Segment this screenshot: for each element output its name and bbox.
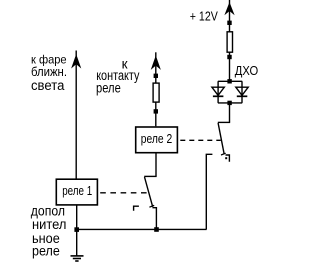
wire: stem to ground	[76, 230, 78, 256]
switch S2 connected throw (left, to bus)	[206, 154, 212, 229]
node: terminal above fuse FU2	[154, 74, 158, 78]
switch S2 unconnected throw seat (right)	[226, 155, 230, 162]
wire: left diode vertical lead	[217, 81, 219, 103]
wire: jog of switch S1 top terminal	[144, 175, 156, 177]
node: junction of bus with switch S1 output	[154, 227, 159, 232]
svg-text:света: света	[31, 78, 65, 93]
arrow: to low-beam headlight (points up)	[72, 55, 80, 67]
dashed mechanical link: relay K1 to contact S1	[100, 192, 148, 194]
node: junction top rail / supply	[227, 79, 231, 83]
svg-text:реле 2: реле 2	[141, 132, 172, 146]
wire: right diode vertical lead	[241, 81, 243, 103]
diode VD2 (right, ДХО)	[236, 87, 248, 96]
ground symbol	[71, 256, 84, 261]
switch S1 connected throw seat	[152, 208, 156, 230]
arrow: +12V feed (points up)	[225, 3, 233, 14]
diode VD1 (left, ДХО)	[212, 87, 224, 96]
wire: bottom bus from ground node to right switch terminal	[77, 228, 207, 230]
relay K2 box "реле 2"	[136, 127, 178, 153]
label: дополнительное реле	[31, 203, 67, 258]
svg-text:реле: реле	[32, 244, 60, 259]
switch S1 unconnected throw (Г mark)	[134, 206, 139, 211]
label: + 12V supply	[190, 10, 219, 24]
svg-text:нител: нител	[32, 217, 66, 232]
wire: middle branch, к контакту реле	[155, 52, 157, 126]
label: к фаре ближн. света	[31, 52, 67, 93]
node: junction of K1 pin, ground and bottom bus	[74, 227, 79, 232]
node: terminal above fuse FU1	[227, 21, 231, 25]
svg-text:ДХО: ДХО	[235, 64, 259, 78]
label: к контакту реле	[96, 56, 140, 95]
node: junction bottom rail / switch S2	[227, 101, 231, 105]
fuse FU1	[227, 32, 232, 52]
wire: jog of switch S2 top terminal	[218, 121, 230, 123]
dashed mechanical link: relay K2 to contact S2	[180, 139, 221, 141]
wire: left branch, к фаре ближн. света up to relay K1	[75, 51, 77, 179]
arrow: to relay contact (points up)	[152, 57, 160, 69]
label: ДХО (daytime running lights)	[235, 64, 259, 78]
wire: diode block bottom rail	[218, 102, 242, 104]
wire: relay K2 bottom pin down to switch S1	[155, 153, 157, 177]
svg-text:реле 1: реле 1	[62, 184, 92, 198]
svg-text:+ 12V: + 12V	[190, 10, 219, 24]
fuse FU2	[153, 83, 159, 102]
switch S2 blade (contact of реле 2)	[218, 123, 227, 159]
svg-text:реле: реле	[96, 81, 121, 96]
wire: right branch +12V down to diode block	[229, 0, 231, 81]
node: terminal below fuse FU1	[227, 55, 231, 59]
wire: diode block down to switch S2	[229, 103, 231, 123]
switch S1 blade (contact of реле 1)	[145, 177, 155, 207]
relay K1 box "реле 1"	[56, 179, 97, 205]
wire: diode block top rail	[218, 80, 242, 82]
wire: relay K1 bottom pin down to ground node	[76, 205, 78, 230]
node: terminal below fuse FU2	[154, 109, 158, 113]
